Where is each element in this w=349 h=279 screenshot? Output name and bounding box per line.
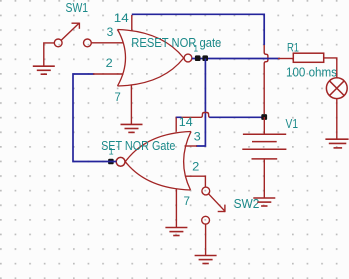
ground at SET gate pin 7: [165, 228, 187, 236]
wire navy to V+ junction: [209, 116, 264, 118]
wire navy start of SET pin14 run: [176, 116, 181, 118]
ground at SW2: [195, 256, 217, 264]
SET gate output bubble: [116, 157, 125, 166]
ground at battery: [253, 198, 275, 206]
RESET gate output bubble: [184, 54, 192, 62]
ground at lamp: [325, 139, 348, 148]
svg-text:R1: R1: [287, 41, 299, 55]
switch SW1 throw circle: [84, 39, 92, 47]
wire R1 to lamp: [324, 58, 337, 78]
switch SW2 actuator arm with arrow: [209, 194, 226, 212]
node junction dot SET output: [108, 159, 114, 165]
wire VCC top rail: [132, 14, 264, 45]
svg-text:2: 2: [106, 56, 113, 70]
RESET gate pin 14 stub: [131, 15, 133, 31]
svg-text:7: 7: [184, 194, 191, 208]
wire V+ vertical with hop over output wire: [264, 45, 268, 114]
svg-text:1: 1: [194, 44, 199, 55]
switch SW1 pole circle: [54, 39, 62, 47]
svg-text:3: 3: [107, 25, 114, 39]
lamp L1: [326, 78, 347, 99]
switch SW1 actuator arm with arrow: [61, 23, 79, 41]
battery V1 plates: [242, 134, 286, 159]
svg-text:1: 1: [109, 146, 114, 157]
ground at RESET gate pin 7: [121, 124, 143, 132]
wire SET pin14 to V+ with hop: [176, 113, 212, 132]
wire lamp to ground: [336, 99, 338, 139]
SET gate pin 7 stub: [175, 189, 177, 228]
NOR gate U1 RESET body: [118, 30, 184, 87]
wire battery to ground: [263, 159, 265, 198]
wire RESET output to R1: [192, 58, 280, 60]
RESET gate pin 7 stub: [130, 85, 132, 125]
svg-text:SW1: SW1: [66, 1, 89, 15]
wire SW1 to ground: [44, 43, 55, 66]
wire red stub RESET pin 2: [93, 73, 124, 75]
node junction dot B: [202, 55, 208, 61]
NOR gate U2 SET body (mirrored): [125, 132, 191, 191]
battery V1 stub from junction: [263, 117, 265, 134]
node junction V+: [261, 114, 267, 120]
wire SW2 to ground: [205, 224, 207, 255]
svg-text:3: 3: [194, 130, 201, 144]
svg-text:14: 14: [114, 11, 129, 25]
svg-text:100 ohms: 100 ohms: [286, 65, 337, 79]
wire SW1 throw to RESET gate pin 3: [91, 42, 123, 44]
svg-text:2: 2: [192, 159, 200, 173]
switch SW2 bottom circle: [202, 216, 210, 224]
resistor R1: [293, 53, 323, 62]
wire red stub into R1: [278, 58, 293, 60]
wire SET output feedback loop to RESET pin 2: [73, 74, 117, 162]
svg-text:RESET NOR gate: RESET NOR gate: [131, 36, 221, 50]
svg-text:14: 14: [179, 115, 193, 129]
wire red stub SET pin 3: [185, 145, 198, 147]
node junction dot A: [195, 55, 201, 61]
wire SET pin 2 to SW2: [186, 176, 206, 187]
switch SW2 top circle: [202, 187, 210, 195]
wire output down to SET gate pin 3: [196, 59, 205, 147]
ground at SW1: [33, 66, 55, 74]
svg-text:V1: V1: [286, 117, 299, 131]
svg-text:SW2: SW2: [234, 197, 260, 211]
svg-text:7: 7: [115, 90, 122, 104]
